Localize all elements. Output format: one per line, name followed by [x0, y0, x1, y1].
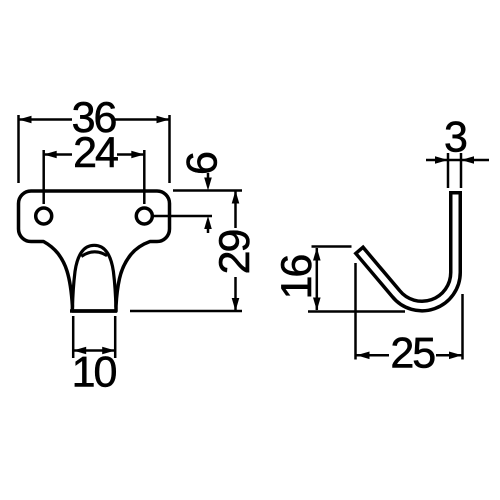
hook tip arch outer — [73, 245, 116, 307]
hole right — [136, 208, 152, 224]
dim 36 arrow left — [19, 116, 32, 124]
dim 3 arrow right — [461, 156, 474, 164]
dim 25 extension line left — [354, 263, 357, 360]
dim 16 line — [316, 248, 319, 310]
dim 16 arrow bottom — [313, 298, 321, 311]
dim 10 arrow left — [73, 347, 86, 355]
dim 25 line — [357, 354, 462, 357]
front view hook bottom line — [70, 309, 117, 313]
side view hook body white core — [361, 195, 456, 307]
dim 36 extension line left — [17, 115, 20, 183]
dim 16 arrow top — [313, 248, 321, 261]
side bottom extension line (16/29 baseline) — [308, 310, 405, 313]
dim 24 extension line left — [42, 150, 45, 204]
dim 36 line — [20, 118, 169, 121]
dim 29 line — [234, 192, 237, 311]
dim 3 arrow left — [435, 156, 448, 164]
front view hook body outline — [19, 191, 170, 311]
dim 16 top extension line — [312, 245, 352, 248]
hole left — [36, 208, 52, 224]
hook bottom extension line (for 29) — [130, 310, 242, 313]
dim 10 extension line right — [114, 316, 117, 358]
dim 36 extension line right — [168, 115, 171, 183]
hole centerline extension (for 6) — [153, 215, 212, 218]
dim 25 arrow right — [449, 352, 462, 360]
dim 3 extension line left — [447, 153, 450, 188]
svg-text:24: 24 — [73, 129, 118, 177]
dim 25 arrow left — [357, 352, 370, 360]
dim 6 lower arrow — [207, 227, 210, 233]
svg-text:16: 16 — [273, 255, 321, 300]
plate top extension line (for 6 and 29) — [173, 189, 242, 192]
svg-text:29: 29 — [211, 231, 259, 275]
dim 24 extension line right — [143, 150, 146, 204]
dim 3 extension line right — [460, 153, 463, 188]
dim 29 arrow top — [232, 191, 240, 204]
dim 10 arrow right — [102, 347, 115, 355]
dim 36 arrow right — [157, 116, 170, 124]
svg-text:10: 10 — [72, 349, 117, 397]
side view hook body — [358, 191, 455, 306]
svg-text:3: 3 — [444, 114, 468, 162]
dim 29 arrow bottom — [232, 298, 240, 311]
dim 24 line — [45, 153, 144, 156]
dim 6 upper arrow — [207, 173, 210, 179]
svg-text:6: 6 — [178, 151, 226, 175]
svg-text:25: 25 — [390, 330, 435, 378]
dim 3 line — [426, 159, 489, 162]
dim 10 line — [74, 349, 114, 352]
dim 10 extension line left — [72, 316, 75, 358]
hook tip arch inner fold line — [81, 252, 107, 257]
dim 25 extension line right — [461, 294, 464, 360]
dim 24 arrow left — [44, 151, 57, 159]
dim 24 arrow right — [131, 151, 144, 159]
